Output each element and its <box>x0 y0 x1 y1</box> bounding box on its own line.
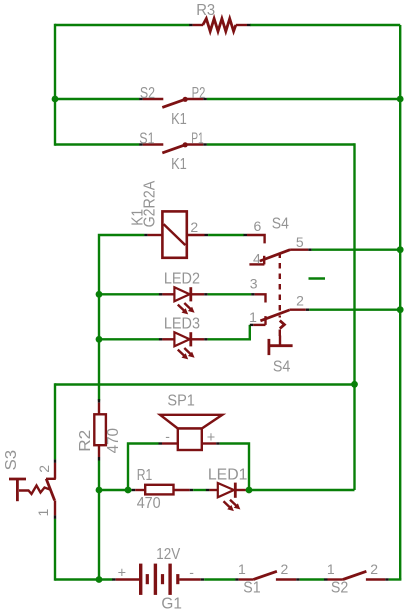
junction left rail S2 row <box>52 96 59 103</box>
svg-text:1: 1 <box>35 509 51 517</box>
LED LED3 <box>159 316 208 360</box>
wire left rail top <box>54 24 56 146</box>
svg-text:R3: R3 <box>196 2 215 19</box>
resistor R1 <box>132 467 194 512</box>
svg-text:G2R2A: G2R2A <box>142 180 159 227</box>
svg-text:2: 2 <box>36 465 52 473</box>
wire top horizontal right <box>250 24 400 26</box>
relay contact K1 S2/P2 <box>139 85 207 128</box>
svg-text:SP1: SP1 <box>167 393 195 410</box>
wire bottom seg1 <box>55 578 113 580</box>
svg-text:2: 2 <box>190 219 198 235</box>
wire relay right <box>208 234 244 236</box>
pin 1 <box>250 324 254 326</box>
svg-text:LED2: LED2 <box>164 271 200 288</box>
svg-text:S2: S2 <box>331 580 348 597</box>
blade <box>260 250 290 261</box>
svg-text:6: 6 <box>254 218 262 234</box>
svg-text:+: + <box>207 430 215 446</box>
junction right rail S2 row <box>397 96 404 103</box>
wire left S3 lower <box>54 519 56 581</box>
wire LED2 row left <box>99 293 159 295</box>
svg-text:470: 470 <box>137 495 161 512</box>
wire LED1 row seg1 <box>99 489 132 491</box>
svg-text:P2: P2 <box>192 85 206 102</box>
svg-text:S1: S1 <box>139 131 154 148</box>
svg-text:-: - <box>189 564 194 580</box>
svg-text:470: 470 <box>105 428 122 453</box>
junction rail3 LED2 row <box>96 291 103 298</box>
junction rail3 LED3 row <box>96 336 103 343</box>
svg-text:S1: S1 <box>243 580 260 597</box>
wire pin2 to right rail <box>309 309 400 311</box>
svg-text:S2: S2 <box>140 85 155 102</box>
pushbutton S3 <box>3 450 56 519</box>
junction mid rail y384.5 <box>351 381 358 388</box>
wire S1 row left <box>55 143 139 145</box>
wire LED2 row right <box>208 293 252 295</box>
svg-text:S3: S3 <box>3 450 20 471</box>
junction right rail pin2 <box>397 306 404 313</box>
wire S2 row left <box>55 98 139 100</box>
resistor R2 <box>77 399 122 460</box>
switch S4 linkage and actuator <box>268 253 293 376</box>
pin 2 <box>289 309 305 311</box>
junction LED1 row rail3 <box>96 487 103 494</box>
wire bottom seg4 <box>389 578 402 580</box>
resistor R3 <box>189 2 250 32</box>
wire speaker left <box>128 444 159 491</box>
svg-text:1: 1 <box>238 561 246 577</box>
svg-text:5: 5 <box>296 234 304 250</box>
wire mid rail vertical <box>353 143 355 490</box>
switch S4 pin 3 <box>250 275 266 302</box>
wire left S3 upper <box>54 383 56 459</box>
junction right rail pin5 <box>397 246 404 253</box>
svg-text:+: + <box>118 565 126 581</box>
wire LED1 row seg2 <box>193 489 206 491</box>
svg-text:LED3: LED3 <box>164 316 200 333</box>
svg-text:K1: K1 <box>171 111 187 128</box>
svg-text:P1: P1 <box>191 131 204 148</box>
wire S1 row right <box>207 143 355 145</box>
svg-text:4: 4 <box>253 250 261 266</box>
svg-text:2: 2 <box>281 561 289 577</box>
pin 5 <box>290 248 308 250</box>
svg-text:R2: R2 <box>77 430 94 452</box>
svg-text:12V: 12V <box>156 546 181 563</box>
junction LED1 row speaker-plus <box>246 487 253 494</box>
switch S2 <box>324 561 389 597</box>
wire LED1 row seg3 <box>249 489 355 491</box>
wire bottom seg3 <box>300 578 324 580</box>
wire pin5 to right rail <box>312 248 400 250</box>
wire top horizontal left <box>55 24 190 26</box>
wire S2 row right <box>207 98 400 100</box>
switch S1 <box>235 561 300 597</box>
junction LED1 row speaker-minus <box>125 487 132 494</box>
wire R2 bottom <box>98 461 100 580</box>
relay contact K1 S1/P1 <box>139 131 207 174</box>
svg-text:1: 1 <box>249 309 257 325</box>
LED LED1 <box>206 467 249 512</box>
svg-text:LED1: LED1 <box>208 467 248 484</box>
switch S4 bottom pole <box>249 293 309 326</box>
svg-text:3: 3 <box>250 275 258 291</box>
svg-text:R1: R1 <box>137 467 153 484</box>
blade <box>260 310 289 321</box>
svg-text:S4: S4 <box>273 359 291 376</box>
svg-text:K1: K1 <box>171 156 187 173</box>
svg-text:1: 1 <box>327 561 335 577</box>
wire relay left <box>99 235 144 401</box>
svg-text:-: - <box>165 428 170 444</box>
svg-text:S4: S4 <box>272 216 290 233</box>
wire LED3 row left <box>99 338 159 340</box>
pin 6 <box>244 234 248 236</box>
junction bottom rail3 <box>96 576 103 583</box>
speaker SP1 <box>159 393 223 450</box>
wire mid horizontal y384.5 <box>55 383 355 385</box>
wire bottom seg2 <box>204 578 235 580</box>
wire stub <box>309 277 326 279</box>
switch S4 top pole <box>244 216 312 267</box>
svg-text:2: 2 <box>296 293 304 309</box>
LED LED2 <box>159 271 208 315</box>
relay coil K1 <box>129 180 208 258</box>
svg-text:2: 2 <box>370 561 378 577</box>
battery G1 <box>112 546 204 612</box>
pin 4 <box>263 256 265 265</box>
wire right rail <box>399 25 401 580</box>
wire speaker right <box>220 444 249 491</box>
wire LED3 row right <box>208 325 250 339</box>
svg-text:G1: G1 <box>161 595 182 612</box>
